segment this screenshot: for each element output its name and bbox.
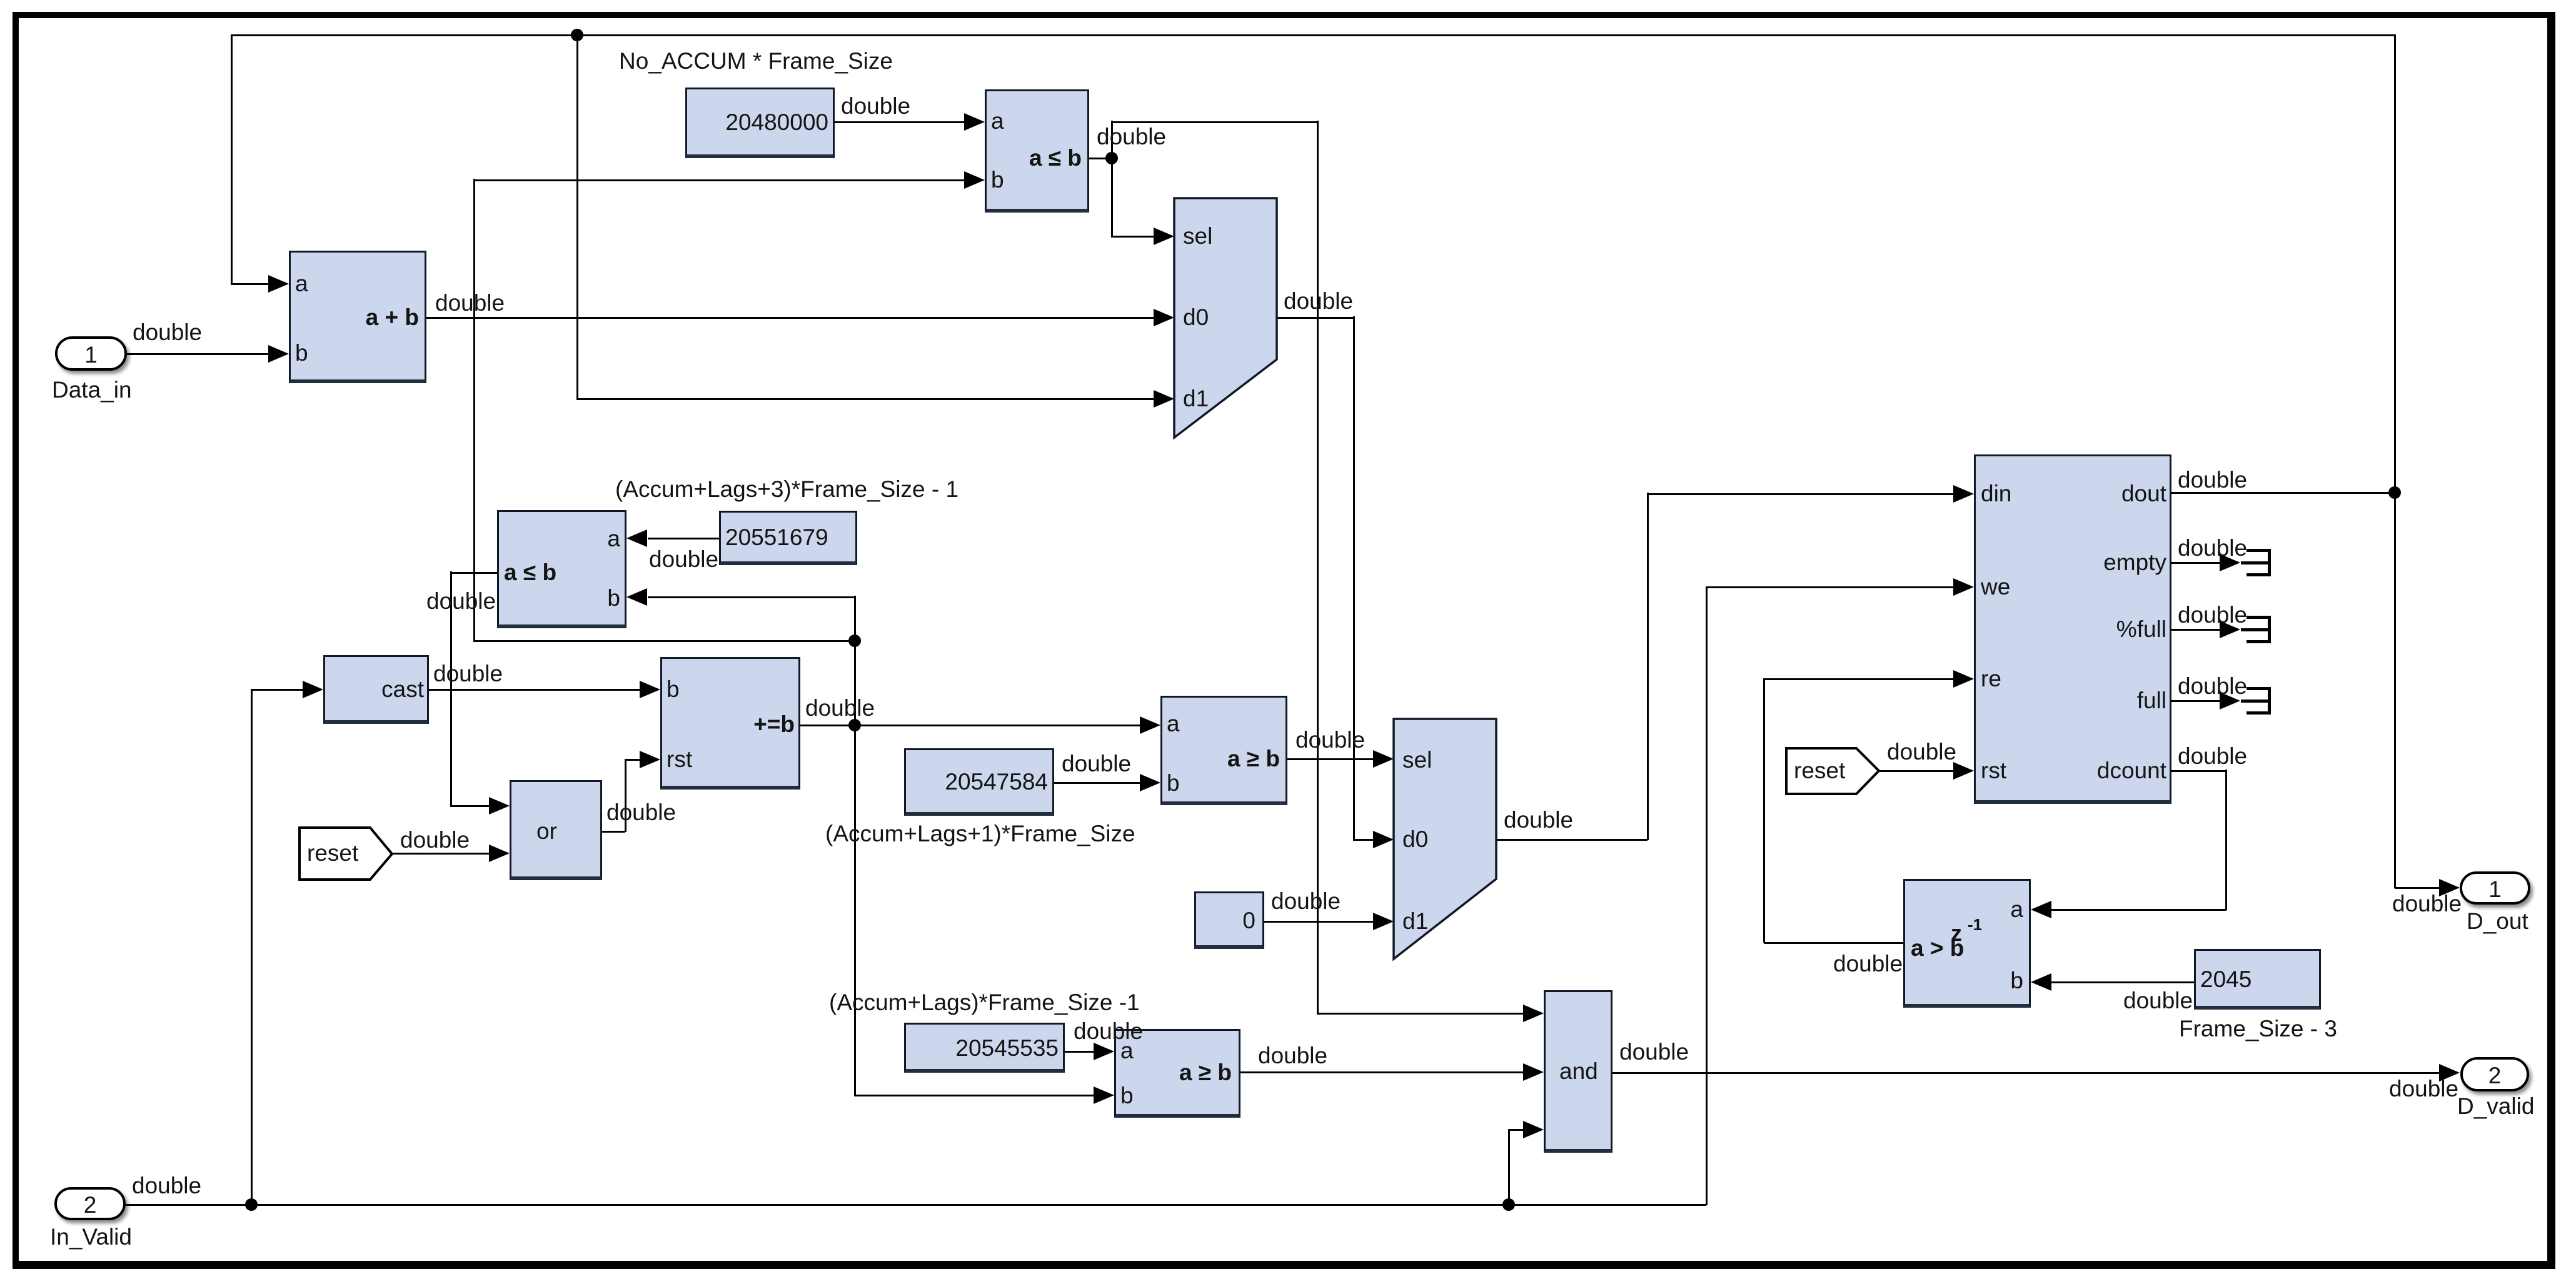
wire or out [602, 831, 625, 833]
terminator full [2246, 687, 2271, 690]
arrowhead mux1 d1 [1154, 390, 1174, 408]
wire In_Valid up to we [1706, 586, 1708, 1205]
label Data_in [52, 378, 132, 402]
wire feedback top horizontal [231, 34, 2395, 36]
wire In_Valid main [126, 1204, 1706, 1206]
relational a>=b 1 [1160, 696, 1287, 805]
wire junction down to sel [1111, 158, 1113, 237]
arrowhead or in1 [489, 797, 510, 815]
wire branch to and in3 [1508, 1129, 1510, 1205]
arrowhead cast input [303, 681, 323, 698]
port label d1 of mux2 [1402, 910, 1428, 933]
arrowhead terminator pctfull [2220, 621, 2240, 638]
type label double a<=b2 out wire [426, 589, 496, 613]
port label a of a>=b1 [1167, 712, 1180, 735]
annotation (Accum+Lags+3)*Frame_Size - 1 [615, 478, 958, 501]
port label b of accumulator [667, 678, 680, 701]
arrowhead a>=b2 a-input [1094, 1043, 1114, 1060]
annotation (Accum+Lags)*Frame_Size -1 [829, 991, 1140, 1015]
block label a>b [1911, 936, 1964, 960]
wire into a<=b2 b-input [648, 596, 855, 598]
port label sel of mux2 [1402, 748, 1432, 771]
type label double mux1 out wire [1284, 289, 1353, 313]
arrowhead fifo din [1953, 485, 1974, 503]
wire Data_in to a+b b-input [127, 353, 269, 355]
wire a>=b1 out to mux2 sel [1287, 758, 1374, 760]
relational a>=b 2 [1114, 1029, 1240, 1118]
wire a>b out [1764, 942, 1903, 944]
accumulator +=b [660, 657, 800, 790]
type label double D_out wire [2392, 892, 2462, 916]
wire a>=b2 out to and in2 [1240, 1071, 1524, 1073]
junction dot In_Valid and [1502, 1198, 1515, 1211]
type label double and out wire near block [1619, 1040, 1689, 1064]
port label a of a<=b1 [991, 109, 1004, 133]
block label a>=b2 [794, 1061, 1232, 1084]
annotation (Accum+Lags+1)*Frame_Size [825, 822, 1135, 846]
type label double 2045 wire [2123, 989, 2193, 1013]
wire accumulator out [800, 725, 855, 726]
wire 0 to mux2 d1 [1264, 921, 1374, 923]
port label d1 of mux1 [1183, 387, 1209, 410]
type label double mux2 out wire [1504, 808, 1573, 832]
sum block a+b [289, 251, 426, 383]
arrowhead mux2 d1 [1373, 913, 1394, 930]
arrowhead and in3 [1523, 1121, 1544, 1138]
type label double full wire [2178, 675, 2247, 698]
type label double a<=b1 out wire [1097, 125, 1166, 149]
wire mux1 out vertical [1353, 316, 1355, 840]
wire junction up [1111, 121, 1113, 159]
type label double accumulator out wire [805, 696, 875, 720]
port label d0 of mux1 [1183, 306, 1209, 329]
arrowhead or in2 [489, 845, 510, 862]
relational a<=b 1 [985, 89, 1089, 213]
wire reset2 to fifo rst [1879, 770, 1953, 772]
wire long vertical to and-in1 [1317, 121, 1319, 1014]
wire down to a+b a-input [231, 34, 233, 284]
port label d0 of mux2 [1402, 828, 1428, 851]
port label a of a+b [295, 272, 308, 295]
arrowhead a+b a-input [268, 275, 289, 293]
port label b of a<=b2 [183, 586, 620, 609]
outport 1 D_out [2460, 871, 2530, 905]
type label double reset1 wire [400, 828, 470, 852]
block label a+b [0, 306, 419, 329]
wire 20551679 to a<=b2 a-input [648, 538, 719, 539]
wire mux2 out vertical [1647, 493, 1649, 840]
arrowhead fifo we [1953, 578, 1974, 596]
port label a of a>b [1586, 898, 2023, 921]
arrowhead a>=b2 b-input [1094, 1086, 1114, 1104]
terminator pctfull [2246, 616, 2271, 619]
arrowhead mux1 d0 [1154, 309, 1174, 326]
type label double 20545535 wire [1074, 1020, 1143, 1043]
wire a+b out to mux1 d0 [426, 317, 1154, 319]
arrowhead a<=b2 a-input [626, 529, 647, 547]
port label a of a>=b2 [1120, 1039, 1134, 1062]
wire accumulator to a>=b2 b-input [854, 1095, 1094, 1096]
type label double In_Valid wire [132, 1174, 201, 1198]
wire into mux2 d0 [1353, 839, 1374, 841]
port label rst of accumulator [667, 748, 692, 771]
multiport switch mux2 [1390, 715, 1501, 965]
value 20551679 [725, 526, 828, 549]
arrowhead and in1 [1523, 1005, 1544, 1022]
value 20547584 [610, 770, 1048, 793]
constant 0 [1194, 891, 1264, 949]
wire branch to cast [251, 689, 253, 1205]
wire mux1 out [1277, 317, 1354, 319]
type label double empty wire [2178, 536, 2247, 560]
wire a<=b1 out to junction [1089, 158, 1111, 159]
arrowhead mux2 sel [1373, 750, 1394, 768]
port label a of a<=b2 [183, 527, 620, 550]
wire 20480000 to a<=b1 a-input [835, 121, 965, 123]
wire accumulator vertical [854, 596, 856, 1095]
port label b of a+b [295, 341, 308, 364]
label D_valid [2457, 1095, 2534, 1118]
arrowhead a>=b1 b-input [1140, 774, 1160, 791]
port label dcount [1729, 759, 2166, 782]
or block [510, 780, 602, 880]
wire or out vertical [625, 759, 626, 832]
wire branch down to mux1 d1 [576, 34, 578, 399]
arrowhead fifo re [1953, 670, 1974, 688]
type label double a>b out wire [1833, 952, 1903, 976]
port label we [1981, 575, 2010, 598]
annotation No_ACCUM * Frame_Size [619, 49, 893, 73]
type label double 20480000 wire [841, 94, 910, 118]
multiport switch mux1 [1170, 194, 1282, 443]
wire a<=b2 out [450, 572, 497, 574]
port label re [1981, 667, 2001, 690]
wire fifo full out [2171, 700, 2220, 702]
wire into mux1 d1 [576, 398, 1154, 400]
arrowhead accumulator rst [640, 751, 660, 768]
wire into fifo we [1706, 586, 1953, 588]
arrowhead a<=b1 a-input [964, 113, 985, 131]
wire 20545535 to a>=b2 a-input [1065, 1051, 1094, 1053]
arrowhead a>b b-input [2031, 973, 2051, 991]
arrowhead terminator empty [2220, 554, 2240, 571]
block label a<=b1 [644, 146, 1082, 169]
type label double pctfull wire [2178, 603, 2247, 627]
type label double and out wire [2389, 1077, 2458, 1101]
wire fifo pctfull out [2171, 629, 2220, 631]
arrowhead terminator full [2220, 692, 2240, 710]
wire into a<=b1 b-input [473, 179, 965, 181]
wire a>b out vertical [1763, 678, 1765, 943]
junction dot top wire [571, 29, 583, 41]
constant 20545535 [904, 1023, 1065, 1073]
arrowhead fifo rst [1953, 762, 1974, 780]
block label a<=b2 [504, 561, 556, 584]
wire a<=b2 out vertical [450, 571, 452, 806]
port label b of a>=b2 [1120, 1084, 1134, 1107]
arrowhead a<=b2 b-input [626, 588, 647, 606]
cast block [323, 655, 429, 724]
constant 20480000 [685, 88, 835, 158]
wire accumulator to a>=b1 a-input [855, 725, 1140, 726]
type label double reset2 wire [1887, 740, 1956, 764]
type label double or out wire [606, 801, 676, 825]
label D_out [2467, 910, 2528, 933]
fifo block [1974, 454, 2171, 804]
wire junction top to right [1111, 121, 1317, 123]
value 0 [818, 909, 1255, 932]
junction dot In_Valid cast [245, 1198, 258, 1211]
wire into a+b a-input [231, 283, 269, 285]
wire 2045 to a>b b-input [2051, 981, 2194, 983]
arrowhead mux2 d0 [1373, 831, 1394, 848]
junction dot accumulator mid [848, 634, 861, 647]
wire branch to left vertical [473, 640, 855, 642]
port label empty [1729, 551, 2166, 574]
port label b of a<=b1 [991, 168, 1004, 191]
value 20545535 [621, 1036, 1059, 1060]
constant 20551679 [719, 511, 857, 565]
type label double a>=b1 out wire [1296, 728, 1365, 752]
port label full [1729, 689, 2166, 712]
constant 20547584 [904, 748, 1054, 816]
wire left vertical to a<=b1 b [473, 179, 475, 641]
block label cast [0, 678, 424, 701]
type label double dcount wire [2178, 745, 2247, 768]
arrowhead a<=b1 b-input [964, 171, 985, 189]
type label double const 0 wire [1271, 890, 1341, 913]
label In_Valid [50, 1225, 132, 1249]
wire to D_out port [2395, 887, 2440, 889]
wire feedback vertical right [2394, 34, 2396, 888]
wire and out to D_valid [1613, 1072, 2440, 1074]
relational with delay a>b [1903, 879, 2031, 1008]
and block [1544, 990, 1613, 1153]
port label sel of mux1 [1183, 224, 1212, 248]
arrowhead and in2 [1523, 1063, 1544, 1081]
type label double 20547584 wire [1062, 752, 1131, 776]
junction dot accumulator out [848, 719, 861, 731]
input flag reset 2 [1783, 745, 1885, 800]
wire mux2 out [1496, 839, 1648, 841]
wire into or in1 [450, 805, 490, 807]
port label pctfull [1729, 618, 2166, 641]
wire 20547584 to a>=b1 b-input [1054, 782, 1140, 784]
port label b of a>=b1 [1167, 771, 1180, 795]
block label a>=b1 [842, 747, 1280, 770]
type label double Data_in wire [133, 321, 202, 344]
type label double 20551679 wire [649, 548, 718, 571]
wire reset to or in2 [392, 853, 490, 855]
junction dot dout [2388, 486, 2401, 499]
type label double a+b out wire [435, 291, 505, 315]
wire dcount vertical [2225, 770, 2227, 910]
wire into a>b a-input [2051, 909, 2226, 911]
arrowhead a>b a-input [2031, 901, 2051, 918]
type label double cast out wire [433, 662, 503, 686]
value 2045 [2200, 968, 2251, 991]
wire dout to junction [2171, 492, 2395, 494]
port label b of a>b [1586, 969, 2023, 992]
arrowhead accumulator b [640, 681, 660, 698]
port label rst [1981, 759, 2006, 782]
arrowhead a>=b1 a-input [1140, 716, 1160, 734]
block label and [1559, 1060, 1598, 1083]
inport 2 In_Valid [54, 1187, 126, 1220]
wire into and in3 [1508, 1129, 1524, 1131]
wire dcount out [2171, 770, 2226, 772]
junction dot a<=b1 out [1105, 152, 1118, 164]
value 20480000 [391, 111, 828, 134]
wire into mux1 sel [1111, 236, 1154, 238]
relational a<=b 2 mirrored [497, 510, 626, 628]
arrowhead a+b b-input [268, 345, 289, 363]
type label double dout wire [2178, 468, 2247, 492]
wire fifo empty out [2171, 562, 2220, 564]
delay label z^-1 of a>b [1951, 921, 1962, 945]
input flag reset 1 [296, 824, 398, 886]
wire into accumulator rst [625, 759, 640, 761]
arrowhead D_out [2439, 879, 2460, 896]
annotation Frame_Size - 3 [2179, 1017, 2337, 1041]
outport 2 D_valid [2460, 1057, 2529, 1091]
inport 1 Data_in [55, 336, 127, 371]
block label or [536, 820, 557, 843]
terminator empty [2246, 549, 2271, 552]
constant 2045 [2194, 949, 2321, 1010]
wire cast out to accumulator b [429, 689, 640, 691]
type label double a>=b2 out wire [1258, 1044, 1327, 1068]
wire into fifo re [1763, 678, 1953, 680]
port label dout [1729, 482, 2166, 505]
wire into and in1 [1317, 1013, 1524, 1015]
port label din [1981, 482, 2011, 505]
arrowhead mux1 sel [1154, 228, 1174, 245]
wire into fifo din [1647, 493, 1953, 495]
arrowhead D_valid [2439, 1064, 2460, 1081]
block label +=b [357, 713, 795, 736]
wire into cast [251, 689, 303, 691]
